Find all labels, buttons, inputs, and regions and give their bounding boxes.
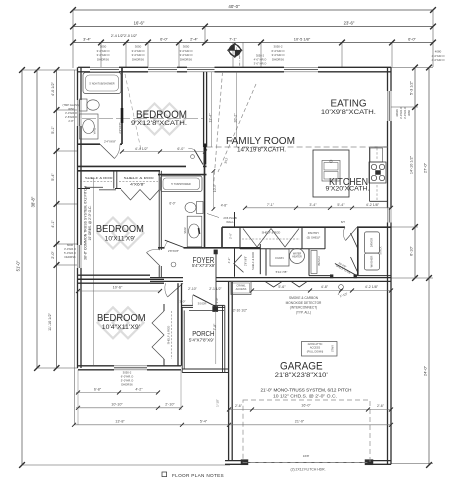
third dimension row small dims (73, 42, 433, 44)
bedroom2 bottom wall (78, 274, 150, 276)
svg-text:DRYER: DRYER (370, 238, 374, 247)
right dimension line outer 27-0 / 24-0 (428, 68, 430, 466)
closet back wall (78, 170, 160, 172)
svg-text:3050: 3050 (68, 107, 74, 111)
svg-text:BEDROOM: BEDROOM (96, 223, 144, 235)
bath2 bottom / foyer top wall (158, 247, 165, 249)
furnace closet double doors from garage (265, 282, 282, 287)
porch top edge line (189, 309, 224, 311)
svg-text:4'-2 1/8": 4'-2 1/8" (366, 203, 380, 207)
house-garage separating wall (216, 277, 391, 279)
island sink (322, 161, 340, 182)
svg-text:7'-1": 7'-1" (267, 203, 275, 207)
svg-text:11'-10 1/2": 11'-10 1/2" (48, 312, 52, 330)
bedroom2 right wall (158, 171, 160, 250)
top wall window 3050 mid (148, 66, 177, 68)
svg-text:5'-0"HR.O: 5'-0"HR.O (64, 251, 76, 255)
garage door jamb posts (241, 460, 248, 465)
svg-text:6'-8": 6'-8" (94, 388, 102, 392)
top extension lines (72, 10, 74, 68)
svg-text:5'4"X7'3"X9': 5'4"X7'3"X9' (192, 263, 215, 268)
attic access (302, 342, 338, 357)
bedroom1 ridge dashed line (82, 118, 203, 120)
svg-text:DHDRS6: DHDRS6 (97, 57, 109, 61)
svg-text:10'X11'X9': 10'X11'X9' (105, 235, 136, 242)
bath1 door arc (100, 144, 115, 158)
bath1 tub (83, 73, 121, 94)
utility room wall (265, 249, 267, 276)
svg-text:16'-6": 16'-6" (134, 20, 145, 25)
hall closet walls (239, 227, 241, 249)
hall width dim (212, 171, 214, 209)
exterior right wall (387, 67, 389, 91)
svg-text:21'8"X23'8"X10': 21'8"X23'8"X10' (275, 372, 328, 379)
svg-text:3'-4": 3'-4" (83, 37, 91, 42)
svg-text:2'-10 1/2": 2'-10 1/2" (233, 309, 248, 313)
bedroom3 window 3050-2 (114, 365, 147, 367)
bath1 toilet (80, 99, 88, 111)
svg-text:(PULL DOWN): (PULL DOWN) (307, 350, 324, 353)
svg-text:5'-4": 5'-4" (200, 419, 208, 423)
svg-text:3/0 DR: 3/0 DR (198, 301, 207, 305)
svg-text:(TMP GLASS): (TMP GLASS) (62, 103, 79, 107)
bedroom3 top wall (78, 278, 164, 280)
top wall window 3050 third (187, 66, 215, 68)
svg-text:DHDRS6: DHDRS6 (64, 255, 76, 259)
svg-text:6'-0": 6'-0" (177, 147, 185, 151)
svg-text:16'-0": 16'-0" (301, 404, 311, 408)
bedroom1 bottom wall (78, 165, 186, 167)
bath2 tub wall top (158, 174, 207, 176)
kitchen island (313, 150, 349, 197)
washer (364, 253, 379, 270)
svg-text:3'-0"HR.O: 3'-0"HR.O (399, 107, 403, 119)
svg-text:21'-0" MONO-TRUSS SYSTEM, 6/12: 21'-0" MONO-TRUSS SYSTEM, 6/12 PITCH (261, 387, 352, 392)
svg-text:5' TUB/SHOWER: 5' TUB/SHOWER (171, 183, 191, 186)
bath1 vanity (80, 114, 99, 139)
dryer (364, 232, 379, 253)
right wall window 3060 (387, 91, 389, 121)
svg-text:13'-4": 13'-4" (209, 113, 213, 123)
svg-text:STAIR: STAIR (332, 345, 335, 352)
family room slope dashed lines (214, 72, 223, 186)
svg-text:2'-8": 2'-8" (68, 119, 73, 123)
closet right bifold doors (121, 190, 160, 201)
svg-text:3'-0"HR.O: 3'-0"HR.O (403, 107, 407, 119)
door jamb fill (203, 144, 206, 165)
svg-text:ACCESS: ACCESS (236, 287, 247, 291)
second dimension row 16-6 / 23-6 (73, 26, 433, 28)
svg-text:9'X12'8"XCATH.: 9'X12'8"XCATH. (131, 120, 187, 127)
svg-text:(INTERCONNECT): (INTERCONNECT) (290, 306, 317, 310)
svg-text:2'-6": 2'-6" (377, 404, 385, 408)
bath2 door leaf (165, 240, 184, 247)
closet front wall (78, 188, 90, 190)
svg-text:CRAWL: CRAWL (236, 284, 246, 288)
light ceiling diamonds bedroom2 (98, 218, 129, 249)
foyer wall post (214, 250, 218, 254)
bedroom1 slope dashed line (125, 74, 141, 150)
svg-text:14'-10 1/2": 14'-10 1/2" (410, 155, 414, 174)
svg-text:2'-4 1/2"2'-0 1/2": 2'-4 1/2"2'-0 1/2" (111, 34, 138, 38)
svg-text:20'-2": 20'-2" (234, 113, 238, 123)
svg-text:VAN2: VAN2 (184, 227, 187, 234)
porch door jamb post (213, 306, 218, 311)
svg-text:10'X9'8"XCATH.: 10'X9'8"XCATH. (321, 109, 376, 116)
bench (311, 251, 317, 274)
svg-text:6'-10": 6'-10" (410, 246, 414, 256)
bedroom1 / family room wall (203, 72, 205, 147)
garage door dim row (229, 409, 391, 411)
svg-text:16/8': 16/8' (303, 454, 310, 458)
top dimension line 40-0 (73, 9, 433, 11)
svg-text:3060: 3060 (407, 110, 411, 116)
svg-text:4'-0" HR.O: 4'-0" HR.O (254, 58, 267, 62)
truss extent line (93, 178, 95, 365)
svg-text:MONOXIDE DETECTOR: MONOXIDE DETECTOR (286, 301, 322, 305)
svg-text:3'-0": 3'-0" (180, 300, 186, 304)
kitchen counter (369, 147, 371, 201)
svg-text:23'-6": 23'-6" (344, 21, 355, 26)
svg-text:6046: 6046 (67, 243, 73, 247)
svg-text:38'-8" COMMON TRUSS SYSTEM, 6X: 38'-8" COMMON TRUSS SYSTEM, 6X2 PITCH (84, 186, 88, 260)
foyer closet bifold V (234, 255, 244, 272)
svg-text:HEATER: HEATER (292, 256, 302, 259)
svg-text:40'-0": 40'-0" (228, 4, 240, 9)
svg-text:1'-10": 1'-10" (216, 399, 220, 407)
svg-text:5'-1": 5'-1" (51, 126, 55, 134)
svg-text:6'-0": 6'-0" (169, 202, 175, 206)
svg-text:51'-0": 51'-0" (16, 260, 21, 271)
counter dashed upper cabinets (376, 148, 378, 160)
svg-text:2'6"X6'8": 2'6"X6'8" (245, 256, 248, 266)
left wall window 6046 (77, 245, 79, 268)
svg-text:22X30 ATTIC: 22X30 ATTIC (308, 343, 323, 346)
svg-text:5'-4": 5'-4" (51, 173, 55, 181)
interior dim row bedroom1 bottom (122, 151, 205, 153)
hall dim row (245, 207, 391, 209)
svg-text:2'-6": 2'-6" (229, 233, 233, 239)
mud closet diagonal door (335, 264, 356, 275)
left extension stubs (22, 69, 77, 71)
svg-text:4'-4 1/2": 4'-4 1/2" (135, 147, 149, 151)
svg-text:2'-4": 2'-4" (190, 37, 198, 42)
svg-text:5'-4": 5'-4" (337, 203, 345, 207)
water heater (290, 249, 305, 264)
svg-text:2'-10": 2'-10" (165, 403, 175, 407)
svg-text:38'-8": 38'-8" (31, 196, 36, 207)
svg-text:5' ADA/TUB/SHOWER: 5' ADA/TUB/SHOWER (89, 83, 114, 86)
porch left wall (181, 307, 183, 372)
svg-text:4'-2": 4'-2" (227, 258, 231, 264)
foyer right wall (215, 250, 217, 306)
svg-text:STACK: STACK (380, 246, 383, 254)
svg-text:SHELF & ROD: SHELF & ROD (251, 252, 255, 270)
svg-text:DHDRS6: DHDRS6 (180, 57, 192, 61)
svg-text:4'-0"HR.O: 4'-0"HR.O (432, 58, 446, 62)
bedroom3 door arc (168, 283, 184, 297)
bottom dim row 1 (76, 392, 158, 394)
svg-text:FLOOR PLAN NOTES: FLOOR PLAN NOTES (172, 473, 224, 478)
svg-text:3'-0"HR.O: 3'-0"HR.O (65, 111, 77, 115)
bedroom1 door leaf (194, 150, 203, 165)
svg-text:2'-10": 2'-10" (188, 287, 197, 291)
svg-text:2'4"X6'8": 2'4"X6'8" (118, 122, 122, 133)
left wall window tmp glass (77, 100, 79, 126)
svg-text:9'X20'XCATH.: 9'X20'XCATH. (326, 185, 370, 192)
svg-text:8/7: 8/7 (341, 220, 346, 224)
svg-text:ACCESS: ACCESS (310, 347, 321, 350)
svg-text:4'-2 1/8": 4'-2 1/8" (365, 285, 379, 289)
foyer front wall with door opening (182, 304, 194, 306)
bath2 toilet (197, 202, 204, 214)
crawl access (231, 282, 251, 295)
svg-text:27'-0": 27'-0" (423, 162, 428, 173)
svg-text:DHDRS6: DHDRS6 (121, 383, 133, 387)
svg-text:5'-3 1/2": 5'-3 1/2" (410, 80, 414, 95)
svg-text:2'4"X6'8": 2'4"X6'8" (104, 140, 116, 144)
svg-text:4'-8": 4'-8" (321, 285, 329, 289)
bath1 bottom wall (78, 143, 100, 145)
svg-text:(5) SHELF: (5) SHELF (307, 236, 321, 240)
svg-text:EATING: EATING (331, 98, 367, 109)
bath2 vanity (187, 216, 202, 247)
svg-text:(2) 2X12 FLITCH HDR.: (2) 2X12 FLITCH HDR. (290, 468, 325, 472)
svg-text:7'-8": 7'-8" (213, 323, 217, 331)
light ceiling diamonds bedroom3 (98, 307, 129, 338)
svg-text:6'-0": 6'-0" (160, 37, 168, 42)
laundry bottom wall (309, 275, 331, 277)
hall wall below family opening (204, 152, 206, 174)
porch bottom wall (182, 368, 228, 370)
svg-text:DHDRS6: DHDRS6 (132, 57, 144, 61)
bottom extension stubs (77, 370, 79, 425)
closet divider (113, 171, 115, 189)
refrigerator (370, 148, 383, 162)
left dimension line 51-0 (21, 70, 23, 465)
svg-text:BENCH: BENCH (317, 256, 321, 265)
hall-kitchen wall stub (234, 212, 236, 227)
top wall window 3050-2 (284, 66, 318, 68)
furnace (270, 249, 289, 266)
porch right wall (222, 305, 224, 372)
svg-text:PANTRY: PANTRY (308, 231, 320, 235)
svg-text:2'-8"HR.O: 2'-8"HR.O (65, 115, 77, 119)
range stove (369, 162, 386, 183)
svg-text:SHELF & ROD: SHELF & ROD (85, 176, 114, 180)
svg-text:SHELF & ROD: SHELF & ROD (262, 231, 281, 235)
front door leaf (193, 295, 216, 307)
svg-text:6'-0": 6'-0" (408, 37, 416, 42)
right wall kitchen window (387, 208, 389, 223)
svg-text:10 1/2" CHD.S. @ 2'-0" O.C.: 10 1/2" CHD.S. @ 2'-0" O.C. (273, 394, 337, 399)
svg-text:FURN: FURN (275, 256, 283, 260)
svg-text:30626: 30626 (395, 109, 399, 117)
svg-text:4'-2": 4'-2" (135, 388, 143, 392)
bench wall (308, 249, 310, 276)
bedroom2 door arc (147, 253, 161, 267)
svg-text:WASHER: WASHER (370, 256, 374, 268)
svg-text:10' ORBS. @ 2'-0" O.C.: 10' ORBS. @ 2'-0" O.C. (88, 205, 92, 240)
svg-text:2'-6": 2'-6" (235, 404, 243, 408)
bottom dim row 2 (76, 407, 181, 409)
exterior top wall (78, 66, 90, 68)
garage door dashed outline (243, 400, 370, 462)
hall west wall (221, 227, 223, 248)
exterior left wall (77, 67, 79, 100)
foyer-bottom wall segment (150, 277, 183, 279)
svg-text:10'4"X11'X9': 10'4"X11'X9' (102, 324, 140, 331)
left dimension line 38-8 (36, 70, 38, 368)
mud hall north wall kitchen bottom (222, 226, 345, 228)
svg-text:5'-6": 5'-6" (278, 285, 286, 289)
bottom dim row 3 (74, 424, 391, 426)
mud door arc to garage (346, 227, 358, 240)
svg-text:BEDROOM: BEDROOM (97, 312, 146, 324)
svg-text:3050-2: 3050-2 (256, 54, 265, 58)
svg-text:4'-8": 4'-8" (221, 203, 228, 207)
hall closet front wall + doors (240, 248, 302, 250)
svg-text:7'-1": 7'-1" (229, 37, 237, 42)
svg-text:A-5: A-5 (236, 52, 241, 56)
svg-text:14'X19'8"XCATH.: 14'X19'8"XCATH. (237, 146, 286, 153)
bedroom3 bottom exterior wall (78, 365, 114, 367)
right extension stubs (391, 67, 433, 69)
family room interior dim lines (211, 72, 213, 147)
left dimension line small segments (56, 70, 58, 368)
garage bottom wall with door opening (225, 460, 248, 462)
svg-text:3'-4": 3'-4" (309, 203, 317, 207)
bath2 right wall (204, 175, 206, 248)
svg-text:4'-1": 4'-1" (51, 220, 55, 228)
laundry wall (357, 228, 359, 275)
foyer closet walls (234, 248, 236, 277)
svg-text:10'-10": 10'-10" (111, 403, 123, 407)
svg-text:10'-5 1/8": 10'-5 1/8" (294, 37, 311, 42)
right dimension line inner (414, 68, 416, 279)
svg-text:SMOKE & CARBON: SMOKE & CARBON (289, 296, 319, 300)
laundry door leaves (351, 233, 358, 248)
garage left wall (228, 281, 230, 461)
cathedral ridge dashed (207, 146, 388, 148)
svg-text:WALL: WALL (226, 220, 234, 224)
floor plan notes title (162, 472, 167, 477)
svg-text:4'-0 1/2": 4'-0 1/2" (51, 81, 55, 96)
svg-text:2'-0": 2'-0" (51, 251, 55, 259)
closet left bypass doors (85, 186, 103, 188)
svg-text:21'-0": 21'-0" (295, 419, 305, 423)
bedroom3 closet bifold (152, 311, 164, 359)
mud door jambs (330, 275, 333, 278)
top wall window 3050 left (90, 66, 119, 68)
light ceiling diamonds bedroom1 (139, 104, 170, 135)
svg-text:(TYP. ALL): (TYP. ALL) (296, 310, 311, 314)
pantry front wall (302, 248, 325, 250)
entry door tag (228, 43, 242, 57)
svg-text:24'-0": 24'-0" (423, 365, 428, 376)
svg-text:VAN2: VAN2 (94, 127, 97, 134)
svg-text:SHELF & ROD: SHELF & ROD (124, 176, 155, 180)
svg-text:SHELF & ROD: SHELF & ROD (167, 326, 171, 345)
svg-text:GARAGE: GARAGE (280, 361, 323, 373)
svg-text:DHDRS6: DHDRS6 (272, 57, 284, 61)
svg-text:FAMILY ROOM: FAMILY ROOM (226, 135, 295, 147)
left inner extension line (74, 70, 76, 425)
closet shelf dashed (80, 180, 112, 182)
lower hall dim row (252, 290, 391, 292)
bedroom3 closet wall (177, 283, 179, 366)
svg-text:4'X6'8": 4'X6'8" (130, 182, 145, 186)
svg-text:10'-6": 10'-6" (113, 286, 123, 290)
svg-text:3'-0"HR.O: 3'-0"HR.O (64, 247, 76, 251)
bath2 tub (161, 176, 203, 192)
svg-text:5'4"X7'8"X9': 5'4"X7'8"X9' (189, 337, 214, 342)
svg-text:13'-8": 13'-8" (115, 419, 125, 423)
bedroom3 top dim row (78, 290, 160, 292)
bath1 / bedroom1 wall (121, 67, 123, 144)
bath1 wall jamb fill (121, 108, 124, 123)
svg-text:3'-0" HR.O: 3'-0" HR.O (254, 62, 267, 66)
porch interior dim (215, 311, 217, 364)
svg-text:5'10 7/8": 5'10 7/8" (276, 270, 288, 274)
svg-text:2'8"X6'8": 2'8"X6'8" (168, 249, 179, 253)
